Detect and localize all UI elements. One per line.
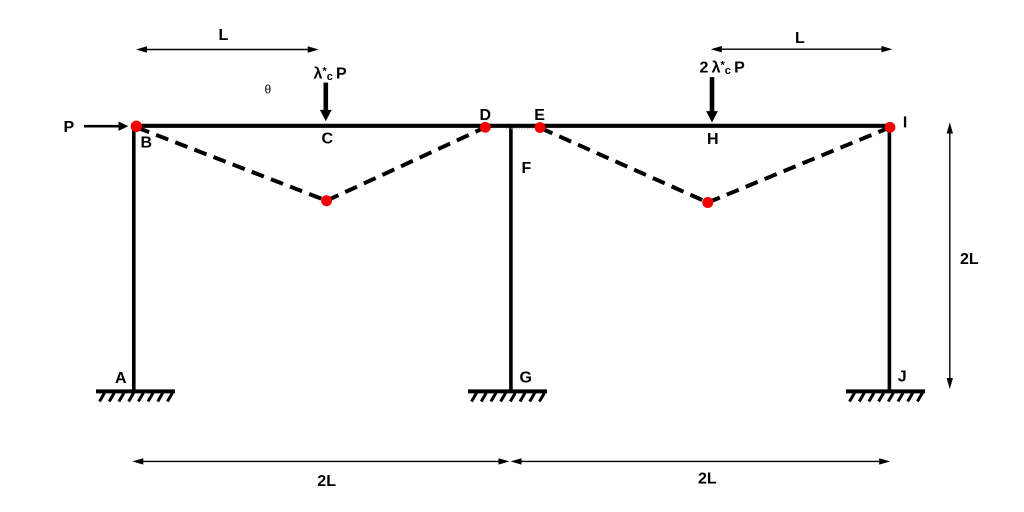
dashed mechanism line E to mid-right hinge [541,128,708,203]
fixed support G [468,391,547,401]
svg-text:B: B [141,135,153,152]
load arrow 2 lambda*c P (vertical at H) [706,77,718,122]
column J-I [888,124,892,390]
beam B-I [132,124,892,128]
svg-text:E: E [534,107,545,124]
svg-text:D: D [480,107,492,124]
load arrow P (horizontal) [84,122,128,131]
dimension L right [711,46,893,52]
svg-text:J: J [898,368,907,385]
dimension 2L vertical right [947,123,953,390]
plastic hinge dot E [535,122,546,133]
dashed mechanism line mid-left hinge to D [327,127,486,200]
plastic hinge dot mid-left [321,195,332,206]
svg-text:λ*c P: λ*c P [314,65,348,83]
svg-text:2L: 2L [698,470,717,487]
fixed support A [96,391,175,401]
load arrow lambda*c P (vertical at C) [320,83,332,122]
dimension L left [136,46,319,52]
svg-text:C: C [322,131,334,148]
svg-text:G: G [520,370,532,387]
column G-F [509,124,513,390]
plastic hinge dot B [131,121,142,132]
svg-text:2L: 2L [960,251,979,268]
dashed mechanism line mid-right hinge to I [708,127,890,202]
dimension 2L bottom left bay [132,458,509,464]
svg-text:F: F [522,160,532,177]
plastic hinge dot mid-right [702,197,713,208]
svg-text:P: P [64,119,75,136]
svg-text:2 λ*c P: 2 λ*c P [700,60,746,78]
svg-text:H: H [707,131,719,148]
svg-text:2L: 2L [317,473,336,490]
svg-text:A: A [115,370,127,387]
svg-text:L: L [219,27,229,44]
svg-text:θ: θ [265,83,272,97]
node label I [904,116,906,127]
dashed mechanism line B to mid-left hinge [137,128,327,201]
column A-B [132,124,136,390]
plastic hinge dot D [480,122,491,133]
dimension 2L bottom right bay [511,458,891,464]
faint construction dotted line F-E [506,128,534,130]
fixed support J [846,391,925,401]
plastic hinge dot I [885,122,896,133]
svg-text:L: L [795,30,805,47]
